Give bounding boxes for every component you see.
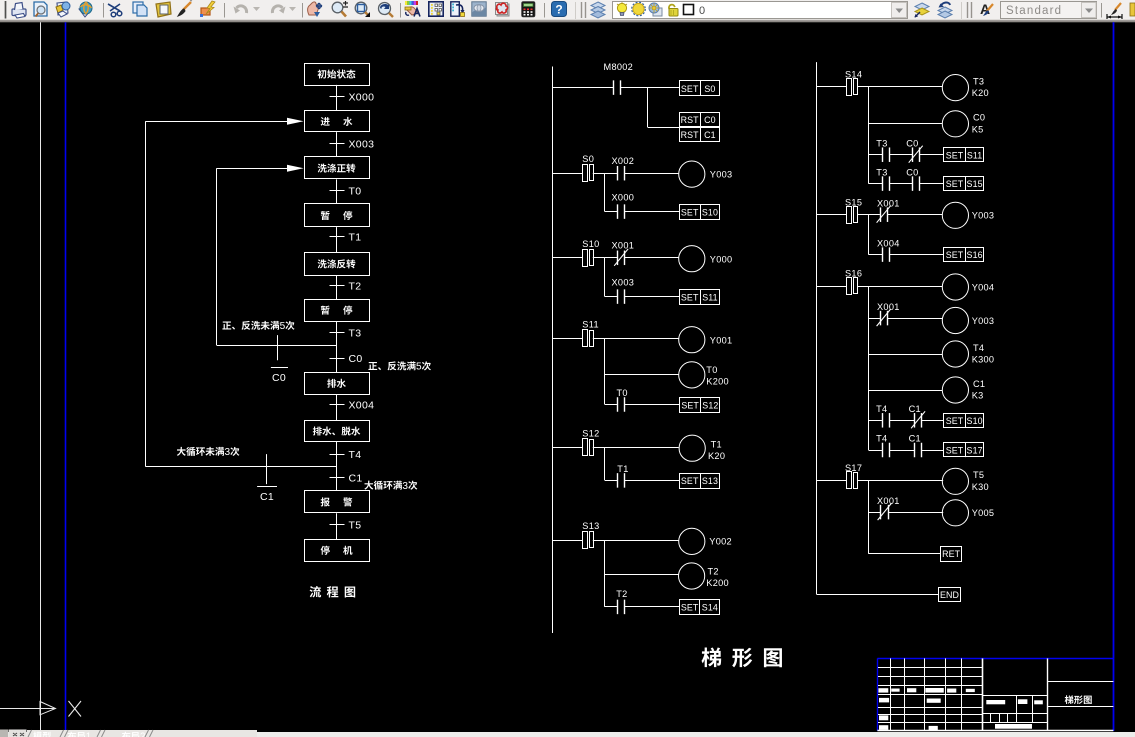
transition tick X003: [330, 143, 345, 145]
transition tick T3: [330, 332, 345, 334]
STL contact S13: [552, 540, 582, 542]
svg-text:Y002: Y002: [709, 537, 732, 547]
icon: markup/lightning: [200, 1, 215, 17]
title block middle horizontals: [983, 695, 1048, 697]
icon: help: [552, 2, 567, 17]
wire: [605, 540, 679, 542]
arrowhead into 洗涤正转: [287, 165, 304, 172]
wire: [605, 606, 618, 608]
coil Y001: [679, 327, 705, 353]
svg-text:K30: K30: [972, 482, 989, 492]
label C1 with overline: [257, 486, 277, 488]
flow step box 暂停a: [305, 204, 370, 227]
wire: [857, 480, 868, 482]
svg-text:S10: S10: [582, 239, 599, 249]
svg-text:T4: T4: [349, 449, 362, 461]
branch wire: [868, 215, 870, 255]
svg-text:S10: S10: [967, 416, 983, 426]
icon: layers: [591, 2, 605, 18]
wire to C0 coil: [869, 123, 943, 125]
coil Y003: [942, 202, 968, 228]
wire: [857, 286, 868, 288]
wire to C1 coil: [869, 390, 943, 392]
icon: redo (disabled): [272, 6, 285, 14]
coil T3: [942, 75, 968, 101]
wire: [869, 154, 883, 156]
branch wire: [604, 173, 606, 211]
wire to END: [817, 594, 939, 596]
contact T2: [617, 600, 619, 615]
svg-text:Y001: Y001: [710, 335, 733, 345]
toolbar separator: [1101, 3, 1103, 18]
svg-text:T5: T5: [349, 519, 362, 531]
coil T0: [679, 362, 705, 388]
icon: sun viewport: [649, 3, 662, 16]
svg-text:C1: C1: [260, 491, 274, 503]
icon: undo (disabled): [234, 6, 247, 14]
title block right horizontals: [1047, 681, 1113, 683]
wire: [593, 447, 605, 449]
branch wire: [868, 480, 870, 554]
contact X001 (NC): [880, 505, 882, 519]
layer state combo box: [613, 2, 908, 19]
wire: [857, 86, 868, 88]
svg-text:T1: T1: [711, 439, 722, 449]
big loop wire: branch below T4 back to step 进水: [146, 466, 338, 468]
icon: match properties: [178, 0, 192, 16]
svg-text:T2: T2: [616, 589, 627, 599]
transition tick X000: [330, 96, 345, 98]
contact C1: [914, 443, 916, 458]
wire junction: [605, 173, 618, 175]
wire to T0 coil: [605, 374, 679, 376]
coil T1: [679, 435, 705, 461]
wire: [625, 257, 679, 259]
svg-text:X004: X004: [349, 399, 375, 411]
STL contact S10: [552, 257, 582, 259]
svg-text:K5: K5: [972, 124, 984, 134]
svg-text:T1: T1: [349, 232, 362, 244]
flow step box 进水: [305, 111, 370, 132]
svg-text:C1: C1: [349, 472, 363, 484]
SET S0 box: [680, 81, 720, 96]
title block left grid vertical lines: [890, 658, 892, 730]
svg-text:S11: S11: [582, 319, 599, 329]
wire: [593, 173, 605, 175]
branch wire: [604, 447, 606, 480]
flow step box 洗涤正转: [305, 157, 370, 179]
right ladder left power rail: [816, 62, 818, 595]
svg-text:SET: SET: [946, 179, 964, 189]
svg-text:X001: X001: [877, 496, 900, 506]
transition tick C0: [330, 358, 345, 360]
contact T1: [617, 473, 619, 488]
STL contact S12: [552, 447, 582, 449]
svg-text:T3: T3: [876, 138, 887, 148]
svg-text:K300: K300: [972, 355, 995, 365]
icon: layer properties manager: [429, 2, 443, 16]
coil Y000: [679, 246, 705, 272]
svg-text:T4: T4: [876, 404, 887, 414]
contact T4: [882, 413, 884, 428]
icon: zoom window: [355, 2, 370, 17]
wire: [625, 606, 679, 608]
contact T0: [617, 397, 619, 412]
STL contact S15: [817, 214, 847, 216]
transition tick T5: [330, 524, 345, 526]
text style combo: [1001, 2, 1097, 19]
svg-text:C0: C0: [906, 138, 918, 148]
wire: [889, 183, 912, 185]
svg-text:C0: C0: [272, 372, 286, 384]
svg-text:SET: SET: [681, 401, 699, 411]
svg-text:C0: C0: [704, 115, 716, 125]
wire: [869, 183, 883, 185]
contact C0 (NC): [912, 147, 914, 162]
svg-text:SET: SET: [946, 416, 964, 426]
wire: [625, 480, 680, 482]
icon: eTransmit globe: [79, 2, 92, 17]
icon: make layer current: [915, 3, 930, 18]
icon: bulb on: [617, 2, 627, 16]
title block middle verticals: [1016, 695, 1018, 722]
svg-text:X000: X000: [349, 92, 375, 104]
svg-text:Y003: Y003: [972, 316, 995, 326]
svg-text:SET: SET: [681, 292, 699, 302]
title block outer frame (blue): [877, 658, 1113, 660]
svg-text:T2: T2: [708, 566, 719, 576]
ladder title 梯形图: [701, 647, 781, 667]
svg-text:K20: K20: [972, 88, 989, 98]
contact T3: [882, 147, 884, 162]
svg-text:X001: X001: [612, 241, 635, 251]
wire: [625, 211, 680, 213]
svg-text:C1: C1: [909, 434, 921, 444]
coil T4: [942, 341, 968, 367]
wire: [889, 450, 914, 452]
wire: [869, 86, 943, 88]
svg-text:T0: T0: [706, 365, 717, 375]
contact T4: [882, 443, 884, 458]
branch wire: [868, 87, 870, 184]
coil T2: [679, 563, 705, 589]
svg-text:X001: X001: [877, 198, 900, 208]
svg-text:C1: C1: [973, 379, 985, 389]
svg-text:X002: X002: [612, 156, 635, 166]
branch wire: [604, 258, 606, 297]
svg-text:RET: RET: [942, 549, 961, 559]
transition tick C1: [330, 477, 345, 479]
svg-text:Y005: Y005: [972, 508, 995, 518]
svg-text:X003: X003: [349, 138, 375, 150]
wire: [593, 338, 605, 340]
icon: cut: [108, 4, 122, 17]
svg-text:C0: C0: [973, 113, 985, 123]
svg-text:S0: S0: [582, 154, 594, 164]
coil Y003: [942, 307, 968, 333]
svg-text:5: 5: [280, 321, 286, 332]
branch wire: [868, 286, 870, 450]
wire junction: [605, 257, 618, 259]
svg-text:T5: T5: [973, 470, 984, 480]
wire: [593, 540, 605, 542]
wire: [888, 512, 943, 514]
condition tick C0-bar on loop wire: [277, 335, 279, 360]
icon: quickcalc: [522, 2, 535, 17]
svg-text:1: 1: [86, 732, 91, 737]
RST C1 box: [680, 127, 720, 142]
svg-text:K3: K3: [972, 391, 984, 401]
svg-text:2: 2: [140, 732, 145, 737]
contact X001 (NC): [880, 207, 882, 222]
svg-text:3: 3: [225, 447, 231, 458]
coil Y005: [942, 500, 968, 526]
transition tick T4: [330, 454, 345, 456]
dropdown: [253, 7, 260, 11]
svg-text:RST: RST: [681, 130, 700, 140]
wire: [869, 512, 881, 514]
SET S10 box: [944, 414, 984, 428]
toolbar separator: [544, 3, 546, 18]
toolbar boundary: [961, 2, 963, 19]
svg-text:K200: K200: [706, 377, 729, 387]
coil Y002: [679, 528, 705, 554]
svg-text:Y003: Y003: [710, 170, 733, 180]
svg-text:S16: S16: [845, 269, 862, 279]
coil C0: [942, 111, 968, 137]
RET box: [941, 547, 962, 562]
wire: [625, 296, 680, 298]
contact X000: [617, 204, 619, 219]
coil Y004: [942, 274, 968, 300]
flow chart main vertical wire: [336, 85, 338, 111]
svg-text:S0: S0: [704, 84, 715, 94]
svg-text:T0: T0: [617, 388, 628, 398]
svg-text:S14: S14: [702, 602, 718, 612]
STL contact S14: [817, 86, 847, 88]
svg-text:S12: S12: [702, 401, 718, 411]
UCS X-axis arrowhead: [40, 702, 56, 715]
toolbar separator: [302, 3, 304, 18]
contact X003: [617, 289, 619, 304]
icon: pan realtime: [308, 2, 322, 17]
wire to RET: [869, 553, 941, 555]
toolbar separator: [103, 3, 105, 18]
wire: [919, 183, 943, 185]
svg-text:S14: S14: [845, 70, 862, 80]
svg-text:S11: S11: [967, 150, 982, 160]
wire: [605, 447, 679, 449]
svg-text:Y000: Y000: [710, 254, 733, 264]
partial icon at right edge: [1130, 3, 1135, 16]
icon: zoom realtime: [332, 1, 348, 17]
contact X002: [617, 166, 619, 181]
svg-text:T3: T3: [876, 167, 887, 177]
svg-text:S11: S11: [702, 292, 717, 302]
svg-text:C1: C1: [704, 130, 716, 140]
icon: properties: [405, 1, 420, 17]
wire: [869, 214, 880, 216]
icon: zoom previous: [379, 3, 394, 18]
svg-text:T0: T0: [349, 186, 362, 198]
flow step box 初始状态: [305, 64, 370, 86]
svg-text:X000: X000: [612, 192, 635, 202]
coil Y003: [679, 161, 705, 187]
wire: [869, 450, 882, 452]
flow step box 排水脱水: [305, 421, 370, 442]
title block section divider 2: [1047, 658, 1049, 730]
coil C1: [942, 377, 968, 403]
svg-text:K200: K200: [706, 578, 729, 588]
title block section divider 1: [982, 658, 984, 730]
SET S10 box: [680, 205, 720, 220]
icon: paste: [156, 2, 171, 17]
flow step box 排水: [305, 373, 370, 395]
toolbar background: [0, 0, 1135, 20]
wire: [869, 318, 880, 320]
svg-text:RST: RST: [681, 115, 700, 125]
wire: [869, 480, 944, 482]
STL contact S11: [552, 338, 582, 340]
svg-text:SET: SET: [681, 207, 699, 217]
icon: padlock open: [668, 4, 678, 16]
flow chart title 流程图: [310, 586, 356, 597]
wire: [887, 318, 942, 320]
contact M8002: [613, 80, 615, 95]
svg-text:S16: S16: [967, 250, 983, 260]
svg-text:5: 5: [416, 362, 422, 373]
svg-text:X001: X001: [877, 302, 900, 312]
wire: [889, 420, 914, 422]
svg-text:M8002: M8002: [604, 62, 634, 72]
icon: dimension style: [1107, 3, 1122, 19]
SET S14 box: [680, 600, 720, 615]
SET S11 box: [944, 148, 984, 162]
transition tick T2: [330, 285, 345, 287]
flow step box 洗涤反转: [305, 253, 370, 276]
STL contact S17: [817, 480, 847, 482]
icon: publish to web: [56, 2, 70, 17]
arrowhead into 进水: [287, 118, 304, 125]
annotation 正、反洗满5次: [368, 361, 431, 372]
annotation 正、反洗未满5次: [222, 321, 294, 332]
svg-text:0: 0: [699, 5, 705, 17]
toolbar boundary: [575, 2, 577, 19]
wire rung1: [552, 87, 614, 89]
svg-text:Y003: Y003: [972, 211, 995, 221]
svg-text:X003: X003: [612, 277, 635, 287]
condition tick C1-bar on loop wire: [266, 454, 268, 484]
wire: [605, 404, 618, 406]
wire: [919, 154, 943, 156]
dropdown: [289, 7, 296, 11]
svg-text:C0: C0: [349, 353, 363, 365]
END box: [939, 588, 961, 602]
wire: [621, 87, 679, 89]
svg-text:S10: S10: [702, 207, 718, 217]
annotation 大循环满3次: [364, 481, 417, 492]
paper border right (blue): [1113, 22, 1115, 731]
icon: markup set manager: [496, 3, 510, 17]
flow step box 报警: [305, 491, 370, 513]
title block drawing name 梯形图: [1065, 695, 1092, 704]
title block text cells (filled): [878, 688, 888, 692]
svg-text:T4: T4: [876, 434, 887, 444]
icon: print preview: [34, 2, 47, 17]
toolbar grip: [5, 1, 7, 19]
svg-text:S15: S15: [845, 197, 862, 207]
svg-text:SET: SET: [681, 476, 699, 486]
svg-text:C1: C1: [909, 404, 921, 414]
wire: [922, 420, 944, 422]
icon: layer translate: [451, 2, 465, 17]
layer color swatch: [684, 5, 694, 15]
wire: [869, 286, 943, 288]
svg-text:C0: C0: [906, 167, 918, 177]
svg-text:S17: S17: [967, 446, 983, 456]
contact X004: [882, 247, 884, 262]
svg-text:S12: S12: [582, 428, 599, 438]
svg-text:X004: X004: [877, 238, 900, 248]
contact X001 (NC): [617, 251, 619, 265]
svg-text:SET: SET: [681, 84, 699, 94]
UCS X-axis shaft: [0, 708, 40, 710]
wire: [869, 420, 882, 422]
coil T5: [942, 468, 968, 494]
annotation 大循环未满3次: [177, 447, 240, 458]
wire: [593, 257, 605, 259]
contact T3: [882, 176, 884, 191]
flow step box 停机: [305, 540, 370, 562]
svg-text:Standard: Standard: [1006, 5, 1062, 17]
svg-text:3: 3: [402, 481, 408, 492]
bottom tab strip: [0, 732, 1135, 737]
icon: layer previous: [938, 3, 952, 18]
svg-text:T4: T4: [973, 343, 984, 353]
branch wire: [604, 540, 606, 607]
SET S16 box: [944, 248, 984, 262]
svg-text:END: END: [940, 590, 959, 600]
wire: [887, 214, 942, 216]
icon: sun (thaw): [632, 2, 646, 16]
svg-text:S13: S13: [582, 521, 599, 531]
svg-text:T3: T3: [973, 76, 984, 86]
transition tick T0: [330, 190, 345, 192]
RST C0 box: [680, 113, 720, 128]
svg-text:SET: SET: [946, 250, 964, 260]
svg-text:K20: K20: [708, 451, 725, 461]
wire: [857, 214, 868, 216]
flow step box 暂停b: [305, 300, 370, 322]
layer combo dropdown: [892, 3, 907, 18]
svg-text:SET: SET: [681, 602, 699, 612]
wire to T2 coil: [605, 574, 679, 576]
model/layout tabs (clipped at window bottom): [0, 730, 8, 737]
UCS label X: [69, 701, 82, 717]
title block left grid horizontal lines: [878, 667, 983, 669]
SET S11 box: [680, 290, 720, 305]
paper border left (blue): [65, 22, 67, 731]
contact C1 (NC): [914, 413, 916, 428]
SET S13 box: [680, 474, 720, 489]
svg-text:T3: T3: [349, 327, 362, 339]
icon: copy: [133, 2, 147, 16]
wire: [625, 173, 679, 175]
SET S15 box: [944, 177, 984, 191]
wire: [889, 154, 912, 156]
contact C0: [912, 176, 914, 191]
svg-text:T1: T1: [617, 464, 628, 474]
